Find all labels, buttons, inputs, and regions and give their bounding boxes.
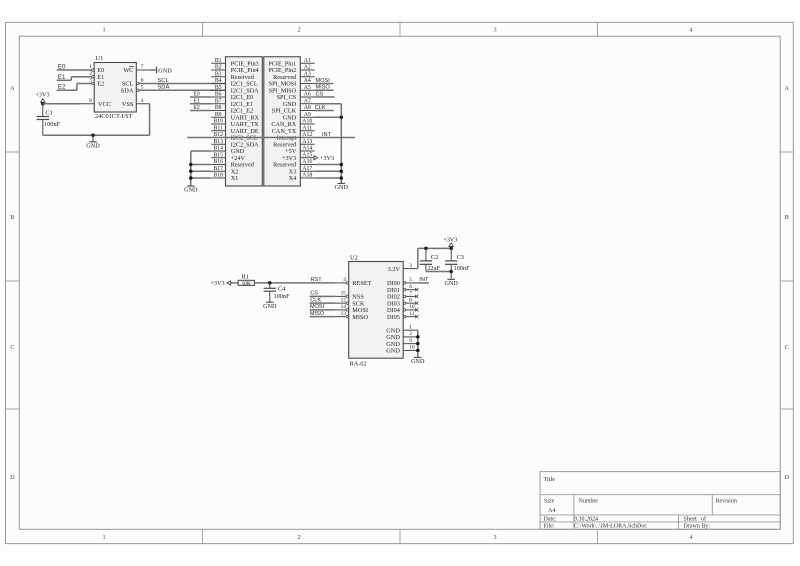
svg-text:4: 4 xyxy=(141,98,144,104)
svg-text:File:: File: xyxy=(544,523,555,529)
svg-text:INT: INT xyxy=(322,132,332,138)
svg-text:A3: A3 xyxy=(304,71,311,77)
svg-text:RST: RST xyxy=(311,277,323,283)
J1 pin B16 Reserved xyxy=(211,159,255,169)
svg-text:8: 8 xyxy=(409,297,412,303)
svg-text:MOSI: MOSI xyxy=(316,78,331,84)
wire SDA U1 to J1 B5 xyxy=(139,89,225,91)
junction B17 xyxy=(189,170,193,174)
J1 pin B11 UART_DE xyxy=(211,125,259,135)
U1 pin 6 SCL xyxy=(136,78,149,85)
svg-text:B17: B17 xyxy=(213,166,223,172)
J1 pin A6 SPI_CS xyxy=(277,92,315,102)
wire E1 to B7 xyxy=(190,103,211,105)
svg-text:B9: B9 xyxy=(215,112,222,118)
svg-text:+3V3: +3V3 xyxy=(35,92,49,99)
wire SCL U1 to J1 B4 xyxy=(139,83,225,85)
svg-text:13: 13 xyxy=(341,311,347,317)
U1 pin 5 SDA xyxy=(136,84,149,91)
power +3V3 above C3 xyxy=(443,236,457,248)
J1 pin A4 SPI_MOSI xyxy=(269,78,315,88)
svg-text:GND: GND xyxy=(411,358,425,365)
junction C2 top xyxy=(424,247,428,251)
svg-text:B: B xyxy=(10,214,14,221)
J1 pin B1 PCIE_Pin3 xyxy=(211,58,258,68)
J1 pin A15 +3V3 xyxy=(282,152,315,162)
U2 pin 8 DI03 xyxy=(403,297,418,304)
junction C3 bottom xyxy=(449,270,453,274)
svg-text:9.30.2024: 9.30.2024 xyxy=(574,516,598,522)
junction A18 xyxy=(340,176,344,180)
title block xyxy=(540,472,780,530)
svg-text:B11: B11 xyxy=(213,125,223,131)
J1 pin A7 GND xyxy=(283,98,315,108)
svg-text:1: 1 xyxy=(409,324,412,330)
ground xyxy=(263,302,277,310)
net label E0 at B6 xyxy=(194,92,200,98)
junction +3V3/C3 top xyxy=(449,247,453,251)
svg-text:Number: Number xyxy=(579,499,599,505)
svg-text:7: 7 xyxy=(409,291,412,297)
svg-text:3.3V: 3.3V xyxy=(387,266,400,273)
svg-text:A4: A4 xyxy=(548,507,556,514)
svg-text:RESET: RESET xyxy=(352,280,371,287)
svg-text:MISO: MISO xyxy=(352,314,368,321)
U2 pin 7 DI02 xyxy=(403,291,418,298)
junction GND pin 9 xyxy=(416,342,420,346)
svg-text:B6: B6 xyxy=(215,92,222,98)
svg-text:4: 4 xyxy=(343,277,346,283)
J1 pin B10 UART_TX xyxy=(211,119,259,129)
svg-text:B7: B7 xyxy=(215,98,222,104)
net label E0 xyxy=(58,64,66,71)
J1 pin A11 CAN_TX xyxy=(272,125,315,135)
svg-text:GND: GND xyxy=(86,142,100,149)
junction GND pin 2 xyxy=(416,335,420,339)
wire +3V3 to U1 VCC xyxy=(43,103,81,105)
wire A7 GND to vertical rail xyxy=(315,104,342,184)
wire A9 GND xyxy=(315,116,342,118)
junction C4 tap xyxy=(268,281,272,285)
svg-text:B10: B10 xyxy=(213,119,223,125)
J1 pin B13 I2C2_SDA xyxy=(211,139,259,149)
J1 pin A12 Interupt xyxy=(277,132,315,142)
svg-text:A15: A15 xyxy=(302,152,312,158)
J1 pin B9 UART_RX xyxy=(211,112,259,122)
J1 pin B17 X2 xyxy=(211,166,238,176)
svg-text:D: D xyxy=(784,474,789,481)
wire CS to U2 NSS xyxy=(310,295,336,297)
ground xyxy=(444,279,458,287)
wire E2 to B8 xyxy=(190,110,211,112)
wire MOSI to U2 MOSI xyxy=(310,309,336,311)
capacitor C1 xyxy=(37,104,61,135)
svg-text:U1: U1 xyxy=(96,55,104,62)
svg-text:A1: A1 xyxy=(304,58,311,64)
svg-text:MISO: MISO xyxy=(316,85,331,91)
svg-text:WC: WC xyxy=(123,67,133,74)
IC U2 RA-02 body xyxy=(349,255,404,368)
net label MISO xyxy=(310,311,325,317)
wire B16 to rail xyxy=(191,164,211,166)
wire INT crossing at row 12 xyxy=(187,137,355,139)
J1 pin B15 +24V xyxy=(211,152,245,162)
svg-text:4: 4 xyxy=(689,534,692,541)
U2 pin 12 SCK xyxy=(335,297,348,304)
J1 pin B18 X1 xyxy=(211,173,238,183)
wire A4 MOSI xyxy=(315,83,334,85)
svg-text:E2: E2 xyxy=(97,81,104,88)
svg-text:CS: CS xyxy=(316,91,324,97)
svg-text:A7: A7 xyxy=(304,98,311,104)
capacitor C3 xyxy=(445,248,470,272)
svg-text:C2: C2 xyxy=(431,254,438,261)
net label CLK xyxy=(310,297,321,303)
U2 pin 9 GND xyxy=(403,338,417,344)
svg-text:U2: U2 xyxy=(350,255,358,262)
U2 pin 10 DI04 xyxy=(403,304,418,311)
svg-text:14: 14 xyxy=(341,304,347,310)
wire U2 GND pins rail xyxy=(417,330,418,357)
connector J1 right half body xyxy=(264,57,301,186)
wire R1 to U2 RESET xyxy=(254,282,335,284)
svg-text:SDA: SDA xyxy=(121,87,134,94)
svg-text:D: D xyxy=(10,474,15,481)
svg-text:7: 7 xyxy=(141,64,144,70)
J1 pin A14 +5V xyxy=(285,146,314,156)
IC U1 24C01CT-I/ST body xyxy=(94,55,136,120)
power port GND at U1 pin 7 xyxy=(150,67,172,75)
svg-text:A5: A5 xyxy=(304,85,311,91)
U2 pin 15 NSS xyxy=(335,291,348,298)
svg-text:6: 6 xyxy=(409,284,412,290)
svg-text:Drawn By:: Drawn By: xyxy=(684,523,711,529)
svg-text:GND: GND xyxy=(335,184,349,191)
net label MOSI xyxy=(310,304,325,310)
J1 pin B3 Reserved xyxy=(211,71,255,81)
wire A5 MISO xyxy=(315,89,334,91)
J1 pin B5 I2C1_SDA xyxy=(211,85,259,95)
svg-text:B3: B3 xyxy=(215,71,222,77)
svg-text:10K: 10K xyxy=(242,281,251,287)
svg-text:9: 9 xyxy=(409,338,412,344)
svg-text:X1: X1 xyxy=(231,175,239,182)
svg-text:GND: GND xyxy=(444,280,458,287)
svg-text:of: of xyxy=(701,515,706,522)
power +3V3 at C1 xyxy=(35,92,49,104)
svg-text:B16: B16 xyxy=(213,159,223,165)
U1 pin 2 E1 xyxy=(81,71,94,78)
U2 pin 1 GND xyxy=(403,324,417,330)
svg-text:A16: A16 xyxy=(302,159,312,165)
U2 pin 2 GND xyxy=(403,331,417,337)
net label E1 xyxy=(58,74,66,81)
J1 pin A10 CAN_RX xyxy=(271,119,314,129)
svg-text:A6: A6 xyxy=(304,92,311,98)
svg-text:B8: B8 xyxy=(215,105,222,111)
U2 pin 14 MOSI xyxy=(335,304,348,311)
svg-text:+3V3: +3V3 xyxy=(320,155,334,162)
svg-text:GND: GND xyxy=(184,187,198,194)
svg-text:A10: A10 xyxy=(302,119,312,125)
J1 pin A2 PCIE_Pin2 xyxy=(268,65,314,75)
wire MISO to U2 MISO xyxy=(310,316,336,318)
svg-text:CLK: CLK xyxy=(315,105,326,111)
svg-text:A14: A14 xyxy=(302,146,312,152)
svg-text:10: 10 xyxy=(409,304,415,310)
J1 pin B4 I2C1_SCL xyxy=(211,78,258,88)
wire E2 to U1 pin 3 xyxy=(57,84,92,91)
junction A9 xyxy=(340,116,344,120)
svg-text:5: 5 xyxy=(409,277,412,283)
svg-text:3: 3 xyxy=(493,534,496,541)
svg-text:B18: B18 xyxy=(213,173,223,179)
svg-text:A9: A9 xyxy=(304,112,311,118)
svg-text:1: 1 xyxy=(102,27,105,34)
svg-text:C: C xyxy=(785,344,789,351)
net label E2 xyxy=(58,84,66,91)
junction B18 xyxy=(189,176,193,180)
J1 pin B6 I2C1_E0 xyxy=(211,92,253,102)
U2 pin 5 DI00 xyxy=(403,277,416,284)
wire A8 CLK xyxy=(315,110,334,112)
U2 pin 4 RESET xyxy=(335,277,348,284)
J1 pin A1 PCIE_Pin1 xyxy=(268,58,314,68)
svg-text:1: 1 xyxy=(102,534,105,541)
wire A6 CS xyxy=(315,96,335,98)
wire B14 GND to rail xyxy=(191,151,211,186)
svg-text:INT: INT xyxy=(419,277,429,283)
J1 pin B12 I2C2_SCL xyxy=(211,132,258,142)
svg-text:B: B xyxy=(785,214,789,221)
svg-text:C: C xyxy=(10,344,14,351)
wire C2/C3 bottom rail xyxy=(426,271,451,273)
net label INT at DI00 xyxy=(419,277,429,283)
U1 pin 4 VSS xyxy=(136,98,150,104)
svg-text:C4: C4 xyxy=(278,286,286,293)
J1 pin A17 X3 xyxy=(289,166,315,176)
power +3V3 at R1 xyxy=(210,280,230,287)
svg-text:2: 2 xyxy=(409,331,412,337)
svg-text:Title: Title xyxy=(544,476,556,483)
ground xyxy=(335,183,349,191)
svg-text:+3V3: +3V3 xyxy=(443,236,457,243)
J1 pin A13 Reserved xyxy=(273,139,314,149)
wire E0 to B6 xyxy=(190,96,211,98)
net label MOSI xyxy=(316,78,331,84)
capacitor C2 xyxy=(420,248,441,272)
svg-text:Date:: Date: xyxy=(544,516,557,522)
wire U2 3.3V to +3V3 rail xyxy=(417,248,452,268)
U1 pin 1 E0 xyxy=(81,64,94,71)
J1 pin A8 SPI_CLK xyxy=(272,105,315,115)
svg-text:RA-02: RA-02 xyxy=(350,361,367,368)
ground xyxy=(411,357,425,365)
U2 pin 16 GND xyxy=(403,345,417,351)
svg-text:GND: GND xyxy=(158,67,172,74)
svg-text:X4: X4 xyxy=(289,175,297,182)
wire +3V3 to R1 xyxy=(231,282,239,284)
svg-text:A8: A8 xyxy=(304,105,311,111)
J1 pin A18 X4 xyxy=(289,173,315,183)
svg-text:Size: Size xyxy=(544,499,555,505)
svg-text:2: 2 xyxy=(297,27,300,34)
svg-text:VSS: VSS xyxy=(122,101,134,108)
wire C1/VSS ground rail xyxy=(43,104,150,135)
svg-text:A4: A4 xyxy=(304,78,311,84)
svg-text:3: 3 xyxy=(493,27,496,34)
U1 pin 3 E2 xyxy=(81,78,94,85)
wire A17 GND xyxy=(315,170,342,172)
junction GND pin 16 xyxy=(416,349,420,353)
ground U1 xyxy=(92,135,94,142)
svg-text:4: 4 xyxy=(689,27,692,34)
net label SCL xyxy=(157,78,169,84)
svg-text:A2: A2 xyxy=(304,65,311,71)
junction A16 xyxy=(340,163,344,167)
ground xyxy=(184,186,198,194)
wire E1 to U1 pin 2 xyxy=(57,77,92,81)
svg-text:100nF: 100nF xyxy=(44,121,61,128)
connector J1 left half body xyxy=(226,57,263,186)
J1 pin B2 PCIE_Pin4 xyxy=(211,65,258,75)
junction A17 xyxy=(340,170,344,174)
resistor R1 10K xyxy=(238,273,254,287)
junction ground rail xyxy=(91,133,95,137)
power +3V3 at A15 xyxy=(314,155,334,162)
svg-text:11: 11 xyxy=(409,311,414,317)
J1 pin B7 I2C1_E1 xyxy=(211,98,253,108)
wire B18 to rail xyxy=(191,177,211,179)
svg-text:8: 8 xyxy=(89,98,92,104)
svg-text:VCC: VCC xyxy=(98,101,111,108)
junction +3V3/C1/VCC xyxy=(41,102,45,106)
svg-text:Sheet: Sheet xyxy=(684,516,698,522)
J1 pin A9 GND xyxy=(283,112,315,122)
svg-text:A18: A18 xyxy=(302,173,312,179)
net label RST xyxy=(311,277,323,283)
U1 pin 7 WC xyxy=(136,64,150,70)
svg-text:100nF: 100nF xyxy=(274,293,291,300)
U2 pin 13 MISO xyxy=(335,311,348,318)
svg-text:16: 16 xyxy=(409,345,415,351)
svg-text:Revision: Revision xyxy=(716,499,737,505)
svg-text:B2: B2 xyxy=(215,65,222,71)
svg-text:2: 2 xyxy=(297,534,300,541)
svg-text:A17: A17 xyxy=(302,166,312,172)
U2 pin 6 DI01 xyxy=(403,284,418,291)
net label E2 at B8 xyxy=(194,105,200,111)
wire CLK to U2 SCK xyxy=(310,302,336,304)
svg-text:GND: GND xyxy=(386,348,400,355)
net label CLK xyxy=(315,105,326,111)
svg-text:A13: A13 xyxy=(302,139,312,145)
svg-text:A: A xyxy=(10,85,15,92)
junction B16 xyxy=(189,163,193,167)
svg-text:B14: B14 xyxy=(213,146,223,152)
wire A16 GND xyxy=(315,164,342,166)
net label MISO xyxy=(316,85,331,91)
svg-text:B4: B4 xyxy=(215,78,222,84)
svg-text:B13: B13 xyxy=(213,139,223,145)
svg-text:C:\Work\..\IM-LORA.SchDoc: C:\Work\..\IM-LORA.SchDoc xyxy=(574,523,647,529)
J1 pin A16 Reserved xyxy=(273,159,314,169)
ground C2/C3 xyxy=(450,272,452,280)
wire E0 to U1 pin 1 xyxy=(57,69,92,71)
ground xyxy=(86,142,100,150)
U2 pin 11 DI05 xyxy=(403,311,418,318)
svg-text:100nF: 100nF xyxy=(454,265,471,272)
capacitor C4 xyxy=(264,283,290,302)
net label E1 at B7 xyxy=(194,98,200,104)
svg-text:3: 3 xyxy=(409,263,412,269)
svg-text:15: 15 xyxy=(341,291,347,297)
wire A18 GND xyxy=(315,177,342,179)
net label CS xyxy=(310,291,318,297)
svg-text:12: 12 xyxy=(341,297,347,303)
U1 pin 8 VCC xyxy=(81,98,95,104)
svg-text:A11: A11 xyxy=(302,125,312,131)
svg-text:C1: C1 xyxy=(45,109,52,116)
svg-text:24C01CT-I/ST: 24C01CT-I/ST xyxy=(95,113,133,120)
J1 pin A5 SPI_MISO xyxy=(269,85,315,95)
svg-text:B5: B5 xyxy=(215,85,222,91)
J1 pin B8 I2C1_E2 xyxy=(211,105,253,115)
svg-text:B15: B15 xyxy=(213,152,223,158)
svg-text:R1: R1 xyxy=(242,273,249,280)
U2 pin 3 3.3V xyxy=(403,263,417,269)
net label CS xyxy=(316,91,324,97)
svg-text:+3V3: +3V3 xyxy=(210,280,224,287)
svg-text:DI05: DI05 xyxy=(387,314,400,321)
svg-text:A: A xyxy=(784,85,789,92)
wire B17 to rail xyxy=(191,170,211,172)
J1 pin A3 Reserved xyxy=(273,71,314,81)
svg-text:B1: B1 xyxy=(215,58,222,64)
wire DI00 INT xyxy=(417,282,429,284)
svg-text:C3: C3 xyxy=(457,254,464,261)
net label SDA xyxy=(157,85,169,91)
J1 pin B14 GND xyxy=(211,146,245,156)
net label INT xyxy=(322,132,332,138)
svg-text:GND: GND xyxy=(263,303,277,310)
